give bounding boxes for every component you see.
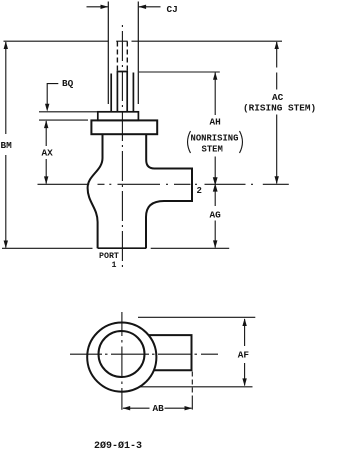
svg-text:2: 2	[197, 186, 202, 196]
svg-text:AG: AG	[210, 210, 222, 221]
svg-text:AX: AX	[42, 148, 54, 159]
end view inner circle	[99, 331, 145, 377]
label NONRISING STEM	[188, 131, 243, 155]
dimension AX	[44, 120, 48, 184]
dimension CJ left arrow	[87, 5, 109, 9]
baseline extension left	[2, 247, 93, 249]
stem housing left	[110, 74, 112, 112]
dimension AF	[242, 318, 246, 386]
bonnet flange	[91, 120, 157, 134]
svg-text:AB: AB	[153, 403, 165, 414]
dimension BQ leader	[45, 84, 58, 112]
packing nut	[98, 112, 139, 121]
dimension AB	[122, 406, 192, 410]
dimension AC	[275, 41, 279, 184]
hidden rising stem left	[116, 42, 118, 72]
svg-text:2Ø9-Ø1-3: 2Ø9-Ø1-3	[94, 440, 142, 452]
extension line CJ right	[137, 2, 139, 105]
bottom port face	[98, 247, 147, 249]
svg-text:NONRISING: NONRISING	[191, 134, 239, 144]
hidden rising stem right	[126, 42, 128, 72]
svg-text:STEM: STEM	[202, 145, 223, 155]
svg-text:BQ: BQ	[62, 78, 74, 89]
svg-text:1: 1	[112, 261, 117, 270]
end view outer circle	[87, 323, 156, 392]
svg-text:PORT: PORT	[99, 252, 119, 261]
body outline right with side port	[146, 134, 192, 248]
dimension AH	[213, 72, 218, 186]
baseline extension right	[151, 247, 230, 249]
stem	[117, 72, 127, 112]
extension line CJ left	[107, 2, 109, 105]
nonrising stem top line	[139, 71, 220, 73]
dimension AG	[213, 183, 218, 248]
centerline horizontal (front view)	[38, 183, 289, 185]
body outline left	[88, 134, 103, 248]
extension line flange top	[39, 119, 88, 121]
end view centerline horizontal	[70, 353, 218, 355]
dimension CJ right arrow	[138, 5, 160, 9]
svg-text:CJ: CJ	[167, 4, 178, 15]
top reference line (rising stem top)	[4, 40, 283, 42]
svg-text:AH: AH	[210, 117, 221, 128]
stem housing right	[132, 73, 134, 112]
end view tab	[149, 335, 192, 370]
extension line AF top	[138, 316, 255, 318]
dimension BM line	[4, 41, 8, 248]
svg-text:(RISING STEM): (RISING STEM)	[243, 103, 316, 114]
svg-text:AF: AF	[238, 350, 250, 361]
svg-text:AC: AC	[272, 92, 284, 103]
extension line AF bottom	[139, 386, 253, 388]
svg-text:BM: BM	[1, 140, 13, 151]
extension line packing top	[39, 111, 98, 113]
centerline vertical (front view)	[121, 25, 123, 268]
extension line AB right	[191, 372, 193, 410]
end view centerline vertical	[121, 312, 123, 410]
